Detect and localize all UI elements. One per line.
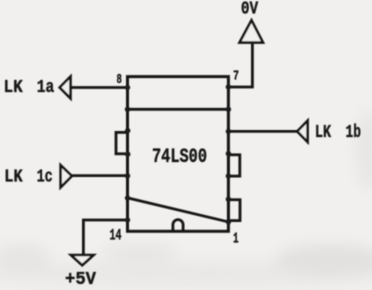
- wire internal pin8-pin7 row: [128, 108, 229, 111]
- svg-text:1b: 1b: [346, 123, 361, 143]
- svg-text:8: 8: [117, 73, 122, 88]
- wire pin 5? to LK1b: [228, 130, 297, 133]
- pin stub box right lower (pins 1-2 zone): [228, 200, 240, 221]
- svg-text:1: 1: [233, 230, 239, 247]
- svg-text:+5V: +5V: [65, 270, 96, 290]
- IC U1 74LS00 body: [128, 77, 229, 232]
- IC orientation diagonal: [128, 198, 228, 222]
- junction dots right edge pins 7,6,5,4,3,2,1: [226, 84, 231, 224]
- svg-text:14: 14: [110, 227, 122, 245]
- svg-text:LK: LK: [4, 78, 23, 98]
- wire LK1a to pin 8: [71, 86, 128, 89]
- svg-text:LK: LK: [4, 167, 22, 187]
- svg-text:7: 7: [233, 70, 239, 85]
- power symbol triangle +5V: [71, 255, 94, 265]
- svg-text:74LS00: 74LS00: [152, 146, 207, 169]
- power symbol triangle 0V: [240, 20, 264, 42]
- pin stub box left (pins 11-12 zone): [116, 132, 128, 153]
- wire +5V to pin 14: [83, 220, 127, 255]
- IC pin-1 end notch: [173, 220, 183, 232]
- svg-text:LK: LK: [315, 123, 331, 143]
- connector triangle LK1a: [60, 77, 71, 99]
- wire 0V to pin 7: [228, 43, 252, 87]
- connector triangle LK1b: [297, 121, 307, 142]
- svg-text:0V: 0V: [241, 0, 258, 20]
- wire LK1c to pin 12?: [72, 174, 128, 177]
- svg-text:1c: 1c: [37, 167, 53, 187]
- svg-text:1a: 1a: [37, 78, 55, 98]
- pin stub box right upper (pins 4-5 zone): [228, 155, 239, 176]
- connector triangle LK1c: [61, 165, 72, 187]
- junction dots left edge pins 8,9,10,11,12,13,14: [125, 85, 131, 223]
